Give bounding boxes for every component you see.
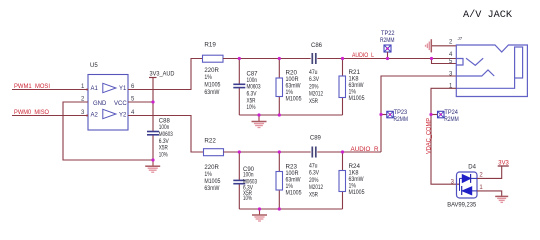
- node jack pin5: [430, 57, 433, 60]
- svg-text:63mW: 63mW: [204, 90, 219, 96]
- test point TP24: [431, 110, 459, 123]
- svg-text:R19: R19: [204, 43, 216, 49]
- svg-text:TP23: TP23: [394, 110, 408, 116]
- node R20 bottom: [278, 113, 281, 116]
- svg-text:220R: 220R: [204, 165, 219, 171]
- node R23 top: [278, 150, 281, 153]
- node gnd bottom rail: [258, 207, 261, 210]
- ground under C87/R20: [252, 115, 267, 128]
- svg-text:1%: 1%: [204, 172, 212, 178]
- power symbol 3V3: [498, 161, 510, 167]
- node R20 top: [278, 57, 281, 60]
- node C87 top: [238, 57, 241, 60]
- svg-text:M1005: M1005: [286, 191, 303, 197]
- resistor R24: [339, 164, 365, 196]
- svg-text:100n: 100n: [159, 125, 170, 131]
- svg-text:PWM0_MISO: PWM0_MISO: [14, 110, 49, 116]
- wire C90 branch: [238, 152, 240, 209]
- svg-text:M0603: M0603: [247, 85, 261, 91]
- svg-text:R20: R20: [286, 71, 298, 77]
- svg-text:1%: 1%: [204, 75, 212, 81]
- svg-text:220R: 220R: [204, 68, 219, 74]
- svg-text:100R: 100R: [286, 171, 300, 177]
- wire AUDIO_R riser to jack pin3: [381, 76, 456, 152]
- resistor R22: [204, 139, 224, 193]
- svg-text:A2: A2: [91, 113, 99, 119]
- svg-text:VCC: VCC: [114, 101, 127, 107]
- wire C88 bottom: [152, 136, 154, 161]
- svg-text:R23: R23: [286, 165, 298, 171]
- capacitor C89: [309, 136, 323, 199]
- svg-text:D4: D4: [468, 165, 476, 171]
- svg-text:M1005: M1005: [204, 179, 221, 185]
- svg-text:6.3V: 6.3V: [159, 139, 169, 145]
- chassis ground at jack pin2: [426, 39, 432, 52]
- svg-text:20%: 20%: [309, 84, 319, 90]
- svg-text:R24: R24: [349, 164, 361, 170]
- svg-text:M1005: M1005: [286, 97, 303, 103]
- diode D4: [447, 165, 477, 209]
- svg-text:M0603: M0603: [159, 132, 173, 138]
- U5 pin 3 connection dot: [86, 115, 88, 117]
- svg-text:5: 5: [449, 59, 453, 65]
- U5 pin 1 connection dot: [86, 89, 88, 91]
- resistor R20: [276, 71, 302, 103]
- svg-text:X5R: X5R: [159, 146, 169, 152]
- svg-text:A1: A1: [91, 86, 99, 92]
- svg-text:1: 1: [479, 185, 483, 191]
- svg-text:6.3V: 6.3V: [309, 171, 319, 177]
- svg-text:3V3_AUD: 3V3_AUD: [150, 72, 176, 78]
- wire R23 branch: [278, 152, 280, 209]
- svg-text:J7: J7: [458, 36, 463, 41]
- svg-text:C87: C87: [247, 71, 259, 77]
- wire C87 branch: [238, 59, 240, 116]
- svg-text:6.3V: 6.3V: [247, 92, 257, 98]
- svg-text:VDAC_COMP: VDAC_COMP: [427, 118, 433, 154]
- svg-text:63mW: 63mW: [349, 177, 364, 183]
- ground at D4 pin1: [495, 196, 508, 202]
- svg-text:1%: 1%: [349, 184, 357, 190]
- resistor R19: [203, 43, 224, 97]
- capacitor C88: [147, 118, 173, 158]
- capacitor C90: [233, 167, 257, 202]
- svg-text:M2012: M2012: [309, 92, 323, 98]
- capacitor C86: [309, 43, 323, 105]
- ground under C88: [145, 160, 160, 172]
- wire U5 pin4 to R22: [128, 116, 204, 153]
- wire U5 pin5 VCC: [128, 101, 153, 103]
- node U5 pin2 / C88 / gnd: [151, 158, 154, 161]
- wire PWM0_MISO to U5 pin3: [12, 115, 88, 117]
- svg-text:1%: 1%: [349, 90, 357, 96]
- wire jack pin1 to D4: [431, 88, 460, 184]
- svg-text:R2MM: R2MM: [380, 38, 395, 44]
- svg-text:47u: 47u: [309, 164, 318, 170]
- wire top-block bottom rail: [239, 114, 342, 116]
- svg-text:M1005: M1005: [204, 83, 221, 89]
- wire R21 branch: [342, 59, 344, 116]
- node R23 bottom: [278, 207, 281, 210]
- wire D4 pin2 to 3V3: [477, 166, 502, 178]
- svg-text:M2012: M2012: [309, 185, 323, 191]
- svg-text:R22: R22: [204, 139, 216, 145]
- svg-text:BAV99,235: BAV99,235: [447, 203, 477, 209]
- resistor R23: [276, 165, 302, 197]
- svg-text:47u: 47u: [309, 70, 318, 76]
- svg-text:1%: 1%: [286, 184, 294, 190]
- svg-text:X5R: X5R: [309, 192, 319, 198]
- node TP23: [379, 113, 382, 116]
- svg-text:C86: C86: [311, 43, 323, 49]
- svg-text:R2MM: R2MM: [444, 117, 459, 123]
- svg-text:M1005: M1005: [349, 96, 366, 102]
- wire rail AUDIO_L left part: [223, 58, 311, 60]
- wire U5 pin2 GND loop: [63, 102, 153, 160]
- wire D4 pin1 to ground: [477, 191, 502, 196]
- node gnd top rail: [257, 113, 260, 116]
- svg-text:4: 4: [449, 52, 453, 58]
- svg-text:U5: U5: [90, 63, 98, 69]
- capacitor C87: [233, 71, 261, 111]
- svg-text:TP22: TP22: [381, 31, 395, 37]
- op-amp buffer U5: [88, 63, 128, 130]
- node TP22: [386, 57, 389, 60]
- svg-text:X5R: X5R: [309, 99, 319, 105]
- svg-text:C89: C89: [310, 136, 322, 142]
- svg-text:10%: 10%: [243, 196, 252, 202]
- ground under C90/R23: [252, 209, 267, 221]
- svg-text:6.3V: 6.3V: [309, 77, 319, 83]
- svg-text:10%: 10%: [159, 152, 168, 158]
- wire rail AUDIO_L right part: [317, 58, 456, 60]
- test point TP22: [380, 31, 395, 58]
- node U5 pin5 / 3V3_AUD: [151, 100, 154, 103]
- test point TP23: [381, 110, 408, 123]
- node C90 top: [238, 150, 241, 153]
- svg-text:63mW: 63mW: [286, 84, 301, 90]
- wire jack pin5 jog: [432, 59, 457, 64]
- connector jack J7: [456, 36, 527, 97]
- svg-text:1K8: 1K8: [349, 171, 360, 177]
- svg-text:R2MM: R2MM: [394, 117, 409, 123]
- wire R24 branch: [342, 152, 344, 209]
- wire R20 branch: [278, 59, 280, 116]
- node R21 top: [341, 57, 344, 60]
- svg-text:2: 2: [449, 40, 453, 46]
- wire bottom-block bottom rail: [239, 208, 342, 210]
- svg-text:PWM1_MOSI: PWM1_MOSI: [14, 84, 50, 90]
- svg-text:20%: 20%: [309, 178, 319, 184]
- wire U5 pin6 to R19: [128, 59, 203, 90]
- svg-text:63mW: 63mW: [204, 186, 219, 192]
- svg-text:GND: GND: [93, 101, 107, 107]
- node R24 top: [341, 150, 344, 153]
- wire jack pin2: [432, 45, 456, 47]
- svg-text:10%: 10%: [247, 105, 256, 111]
- svg-text:1K8: 1K8: [349, 77, 360, 83]
- svg-text:63mW: 63mW: [286, 178, 301, 184]
- wire rail AUDIO_R right part: [317, 151, 381, 153]
- svg-text:100R: 100R: [286, 77, 300, 83]
- svg-text:Y2: Y2: [119, 113, 127, 119]
- wire PWM1_MOSI to U5 pin1: [12, 89, 88, 91]
- resistor R21: [339, 70, 365, 102]
- svg-text:AUDIO_R: AUDIO_R: [351, 147, 380, 153]
- svg-text:C88: C88: [159, 118, 171, 124]
- svg-text:AUDIO_L: AUDIO_L: [352, 53, 375, 59]
- svg-text:2: 2: [479, 173, 483, 179]
- svg-text:X5R: X5R: [247, 98, 257, 104]
- wire rail AUDIO_R left part: [224, 151, 311, 153]
- power symbol 3V3_AUD: [149, 72, 175, 132]
- svg-text:R21: R21: [349, 70, 361, 76]
- svg-text:100n: 100n: [247, 78, 258, 84]
- svg-text:1%: 1%: [286, 90, 294, 96]
- svg-text:TP24: TP24: [444, 110, 458, 116]
- svg-text:M1005: M1005: [349, 190, 366, 196]
- svg-text:100n: 100n: [243, 173, 254, 179]
- svg-text:Y1: Y1: [119, 86, 127, 92]
- svg-text:63mW: 63mW: [349, 83, 364, 89]
- node TP24: [429, 113, 432, 116]
- svg-text:A/V JACK: A/V JACK: [463, 9, 512, 21]
